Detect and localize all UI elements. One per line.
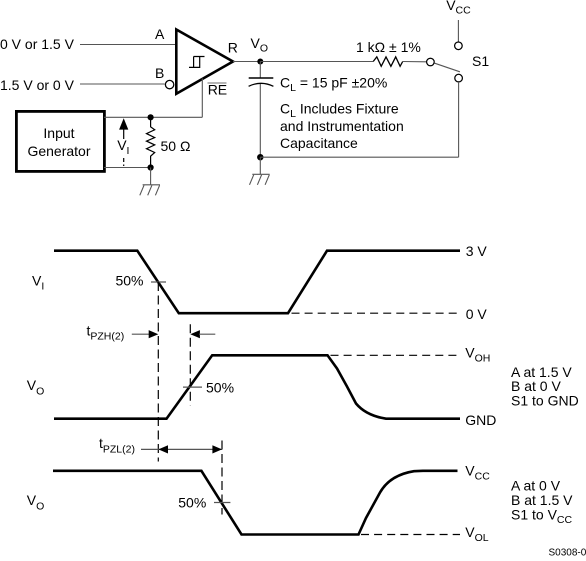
- tPZH dimension arrows: [132, 330, 216, 338]
- svg-text:tPZH(2): tPZH(2): [87, 322, 125, 342]
- dashed timing line 3: [221, 441, 223, 515]
- svg-text:A: A: [155, 26, 165, 42]
- 50% tick on VO falling edge (wf3): [214, 502, 230, 504]
- wire ground rail: [260, 156, 458, 158]
- ground below CL: [250, 157, 270, 185]
- svg-text:B at 1.5 V: B at 1.5 V: [511, 492, 573, 508]
- svg-text:R: R: [228, 40, 238, 56]
- node VO junction dot: [257, 59, 263, 65]
- svg-text:VI: VI: [117, 137, 129, 157]
- waveform VI trace: [54, 251, 460, 314]
- wire capacitor to ground rail: [259, 84, 261, 157]
- svg-text:50%: 50%: [115, 273, 143, 289]
- svg-text:GND: GND: [465, 412, 496, 428]
- svg-text:VI: VI: [32, 273, 44, 293]
- svg-text:VOH: VOH: [465, 344, 490, 364]
- svg-text:S1: S1: [472, 53, 489, 69]
- dashed timing line 1: [157, 282, 159, 462]
- svg-text:Generator: Generator: [27, 143, 90, 159]
- svg-text:Capacitance: Capacitance: [280, 135, 358, 151]
- svg-text:and Instrumentation: and Instrumentation: [280, 118, 404, 134]
- svg-text:0 V: 0 V: [466, 306, 488, 322]
- svg-text:50%: 50%: [206, 380, 234, 396]
- svg-text:RE: RE: [208, 82, 227, 98]
- wire VO to resistor: [260, 61, 373, 63]
- wire VCC to S1: [457, 20, 459, 42]
- wire generator bottom: [104, 167, 151, 169]
- annotation block 1: [511, 364, 579, 409]
- svg-text:0 V or 1.5 V: 0 V or 1.5 V: [0, 36, 75, 52]
- svg-text:VO: VO: [27, 377, 45, 398]
- svg-text:VCC: VCC: [446, 0, 471, 16]
- svg-text:Input: Input: [43, 125, 74, 141]
- wire generator top output: [104, 116, 202, 118]
- dashed level VOL: [361, 534, 460, 536]
- ground below 50 Ω: [140, 168, 160, 196]
- svg-text:CL = 15 pF ±20%: CL = 15 pF ±20%: [280, 74, 387, 94]
- svg-text:1.5 V or 0 V: 1.5 V or 0 V: [0, 77, 75, 93]
- wire input A: [80, 44, 176, 46]
- svg-text:3 V: 3 V: [466, 243, 488, 259]
- svg-text:B: B: [155, 65, 164, 81]
- node junction dot bottom: [148, 164, 154, 170]
- svg-text:VOL: VOL: [465, 524, 489, 544]
- svg-text:50%: 50%: [178, 495, 206, 511]
- svg-text:VO: VO: [27, 492, 45, 513]
- capacitor CL: [249, 62, 274, 87]
- svg-text:VCC: VCC: [465, 463, 490, 483]
- svg-text:S0308-01: S0308-01: [549, 548, 586, 556]
- S1 common contact: [427, 58, 435, 66]
- node ground rail junction dot: [257, 154, 263, 160]
- svg-text:tPZL(2): tPZL(2): [99, 435, 135, 455]
- wire RE: [201, 79, 203, 118]
- node junction dot top: [148, 114, 154, 120]
- hysteresis symbol: [189, 57, 205, 68]
- label Input Generator: [27, 125, 90, 159]
- wire S1 to ground rail: [458, 82, 460, 157]
- annotation block 2: [511, 478, 573, 527]
- 50% tick on VO rising edge: [183, 386, 202, 388]
- S1 switch arm: [435, 63, 460, 72]
- label RE (overline): [208, 82, 228, 98]
- wire input B: [80, 83, 165, 85]
- svg-text:S1 to GND: S1 to GND: [511, 393, 579, 409]
- svg-text:S1 to VCC: S1 to VCC: [511, 507, 573, 527]
- dashed level 0 V: [292, 312, 461, 314]
- tPZL dimension arrow: [141, 445, 222, 453]
- inverting bubble on B input: [165, 80, 173, 88]
- waveform VO tPZL trace: [53, 471, 458, 535]
- resistor 50 Ω zigzag: [147, 117, 155, 167]
- Input Generator box: [16, 111, 104, 171]
- 50% tick on VI falling edge: [151, 281, 166, 283]
- svg-text:50 Ω: 50 Ω: [161, 138, 191, 154]
- S1 throw contact VCC: [455, 42, 463, 50]
- resistor 1 kΩ zigzag: [373, 57, 403, 66]
- VI measure arrow: [119, 118, 128, 166]
- wire resistor to S1 common: [403, 61, 427, 63]
- dashed level VOH: [331, 354, 461, 356]
- dashed timing line 2: [189, 324, 191, 405]
- note CL includes fixture capacitance: [280, 101, 404, 152]
- svg-text:VO: VO: [251, 35, 269, 55]
- svg-text:1 kΩ ± 1%: 1 kΩ ± 1%: [356, 39, 421, 55]
- op-amp U1 receiver triangle: [176, 30, 233, 94]
- S1 throw contact GND side: [455, 74, 463, 82]
- wire output R: [233, 61, 260, 63]
- waveform VO tPZH trace: [54, 355, 460, 418]
